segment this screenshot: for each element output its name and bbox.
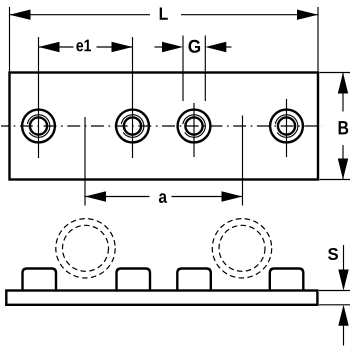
dimension S: arrowheads bbox=[338, 270, 348, 291]
foot 2 bbox=[117, 269, 151, 293]
dimension a: arrowheads bbox=[85, 191, 106, 201]
dimension B: label bbox=[339, 121, 349, 134]
foot 1 (side view boss) bbox=[23, 269, 57, 293]
dashed circle 2, inner bbox=[219, 225, 265, 271]
dimension B: extension lines bbox=[320, 72, 350, 74]
centerline (dash-dot) through holes bbox=[1, 125, 322, 127]
dimension a: label bbox=[159, 193, 167, 203]
dimension e1: label bbox=[76, 40, 91, 52]
hole 1 centerline vertical bbox=[38, 37, 40, 158]
dimension G: extension lines bbox=[182, 36, 184, 102]
plate (top view) bbox=[10, 73, 319, 180]
dimension S: line above bbox=[343, 245, 345, 271]
hole 4 bbox=[270, 110, 303, 143]
dimension L: extension lines bbox=[9, 7, 11, 71]
dimension e1: arrowheads bbox=[39, 42, 60, 52]
dashed circle 1, inner bbox=[63, 225, 109, 271]
dimension a: line bbox=[85, 196, 150, 198]
hole 3 centerline vertical bbox=[193, 103, 195, 157]
dimension L: arrowheads bbox=[10, 10, 31, 20]
dimension a: extension lines bbox=[84, 117, 86, 206]
hole 3 bbox=[178, 110, 211, 143]
hole 2 bbox=[116, 110, 149, 143]
dashed circle 1 (hidden port), outer bbox=[56, 219, 115, 278]
dimension S: label bbox=[328, 248, 338, 260]
dimension G: label bbox=[188, 40, 200, 53]
bar (side view plate) bbox=[6, 291, 317, 305]
foot 3 bbox=[177, 269, 211, 293]
dimension L: line bbox=[10, 14, 151, 16]
foot 4 bbox=[270, 269, 304, 293]
hole 2 centerline vertical bbox=[132, 37, 134, 158]
dashed circle 2 (hidden port), outer bbox=[212, 219, 271, 278]
hole 1 bbox=[22, 110, 55, 143]
dimension e1: line bbox=[39, 46, 74, 48]
dimension B: arrowheads bbox=[338, 73, 348, 94]
dimension S: line below bbox=[343, 325, 345, 346]
dimension G: arrowheads bbox=[162, 42, 183, 52]
dimension L: label bbox=[160, 8, 168, 20]
dimension G: line bbox=[155, 46, 166, 48]
dimension B: line bbox=[342, 73, 344, 112]
dimension S: extension lines bbox=[319, 290, 350, 292]
hole 4 centerline vertical bbox=[286, 99, 288, 157]
